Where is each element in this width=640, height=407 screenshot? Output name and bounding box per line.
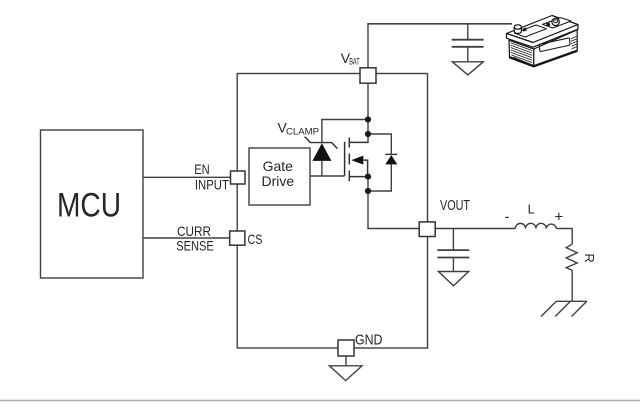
svg-text:Drive: Drive: [261, 173, 294, 189]
svg-text:L: L: [528, 203, 535, 217]
svg-text:SENSE: SENSE: [176, 238, 214, 254]
wire VBAT pin to MOSFET drain: [367, 80, 369, 143]
terminal left: [514, 27, 521, 34]
svg-text:R: R: [582, 253, 597, 262]
pin VOUT: [419, 222, 435, 237]
svg-text:INPUT: INPUT: [195, 178, 229, 193]
wire VBAT drop to pin: [367, 24, 369, 70]
junction dot D (diode bottom): [365, 188, 371, 194]
gate bar: [344, 142, 346, 176]
svg-text:CURR: CURR: [177, 223, 211, 239]
svg-text:CLAMP: CLAMP: [286, 127, 319, 138]
capacitor C1 (battery rail): [452, 24, 484, 62]
wire EN: MCU to EN pin: [143, 176, 231, 178]
source connection: [349, 176, 368, 178]
wire GND pin to ground: [345, 356, 347, 366]
wire body-diode branch bottom: [368, 164, 391, 191]
earth ground (load): [541, 301, 587, 316]
junction dot B (diode top): [365, 131, 371, 137]
wire CURR SENSE: MCU to CS pin: [143, 237, 230, 239]
zener diode VCLAMP: [305, 137, 338, 176]
bottom page border: [0, 400, 640, 402]
MOSFET Q1: [345, 138, 368, 182]
channel dashes: [348, 138, 350, 148]
right face right hatch: [571, 37, 577, 39]
body diode D1: [385, 154, 397, 164]
ground triangle (C1): [452, 62, 483, 75]
lid side band: [507, 25, 579, 48]
body arrow: [351, 156, 363, 165]
svg-text:VOUT: VOUT: [440, 197, 470, 214]
pin GND: [338, 340, 354, 356]
drain connection: [349, 141, 368, 143]
svg-text:Gate: Gate: [263, 158, 294, 174]
wire VBAT top rail to battery: [367, 23, 512, 25]
left face vents: [511, 43, 532, 51]
wire MOSFET source down to VOUT pin: [368, 177, 420, 229]
bottom thick edge: [510, 51, 578, 66]
ground triangle (GND pin): [329, 366, 362, 381]
svg-text:-: -: [505, 209, 510, 226]
battery BT1: [507, 16, 579, 67]
Gate Drive box U1: [249, 148, 310, 205]
wire zener branch horizontal: [322, 120, 368, 144]
lid top face: [507, 16, 579, 43]
top cover right: [543, 18, 572, 28]
wire body-diode branch top: [368, 134, 391, 155]
pin VBAT: [360, 68, 376, 83]
vent cap left: [522, 28, 526, 32]
top cover left: [515, 25, 547, 37]
svg-text:EN: EN: [194, 162, 210, 177]
body to source wire: [363, 160, 368, 177]
inductor L: [515, 223, 556, 228]
MCU box: [41, 130, 144, 278]
wire VOUT pin to inductor: [435, 228, 515, 230]
resistor R: [566, 244, 577, 270]
terminal right: [552, 18, 559, 25]
wire resistor to earth ground: [571, 270, 573, 301]
pin EN: [231, 171, 246, 184]
pin CS: [230, 231, 245, 245]
IC box: [237, 74, 427, 349]
svg-text:+: +: [555, 209, 564, 226]
vent cap right: [546, 23, 550, 27]
junction dot A (zener tap): [365, 116, 371, 122]
case left face: [509, 40, 534, 66]
svg-text:MCU: MCU: [57, 186, 121, 224]
ground triangle (C2): [438, 272, 468, 286]
wire inductor to resistor: [556, 229, 572, 245]
capacitor C2 (VOUT): [437, 229, 469, 272]
svg-text:GND: GND: [355, 332, 383, 349]
front label: [539, 38, 570, 51]
svg-text:CS: CS: [248, 231, 263, 247]
wire gate drive to gate: [310, 175, 345, 177]
junction dot C (source): [365, 174, 371, 180]
case right face: [534, 30, 577, 67]
svg-text:BAT: BAT: [349, 57, 360, 67]
